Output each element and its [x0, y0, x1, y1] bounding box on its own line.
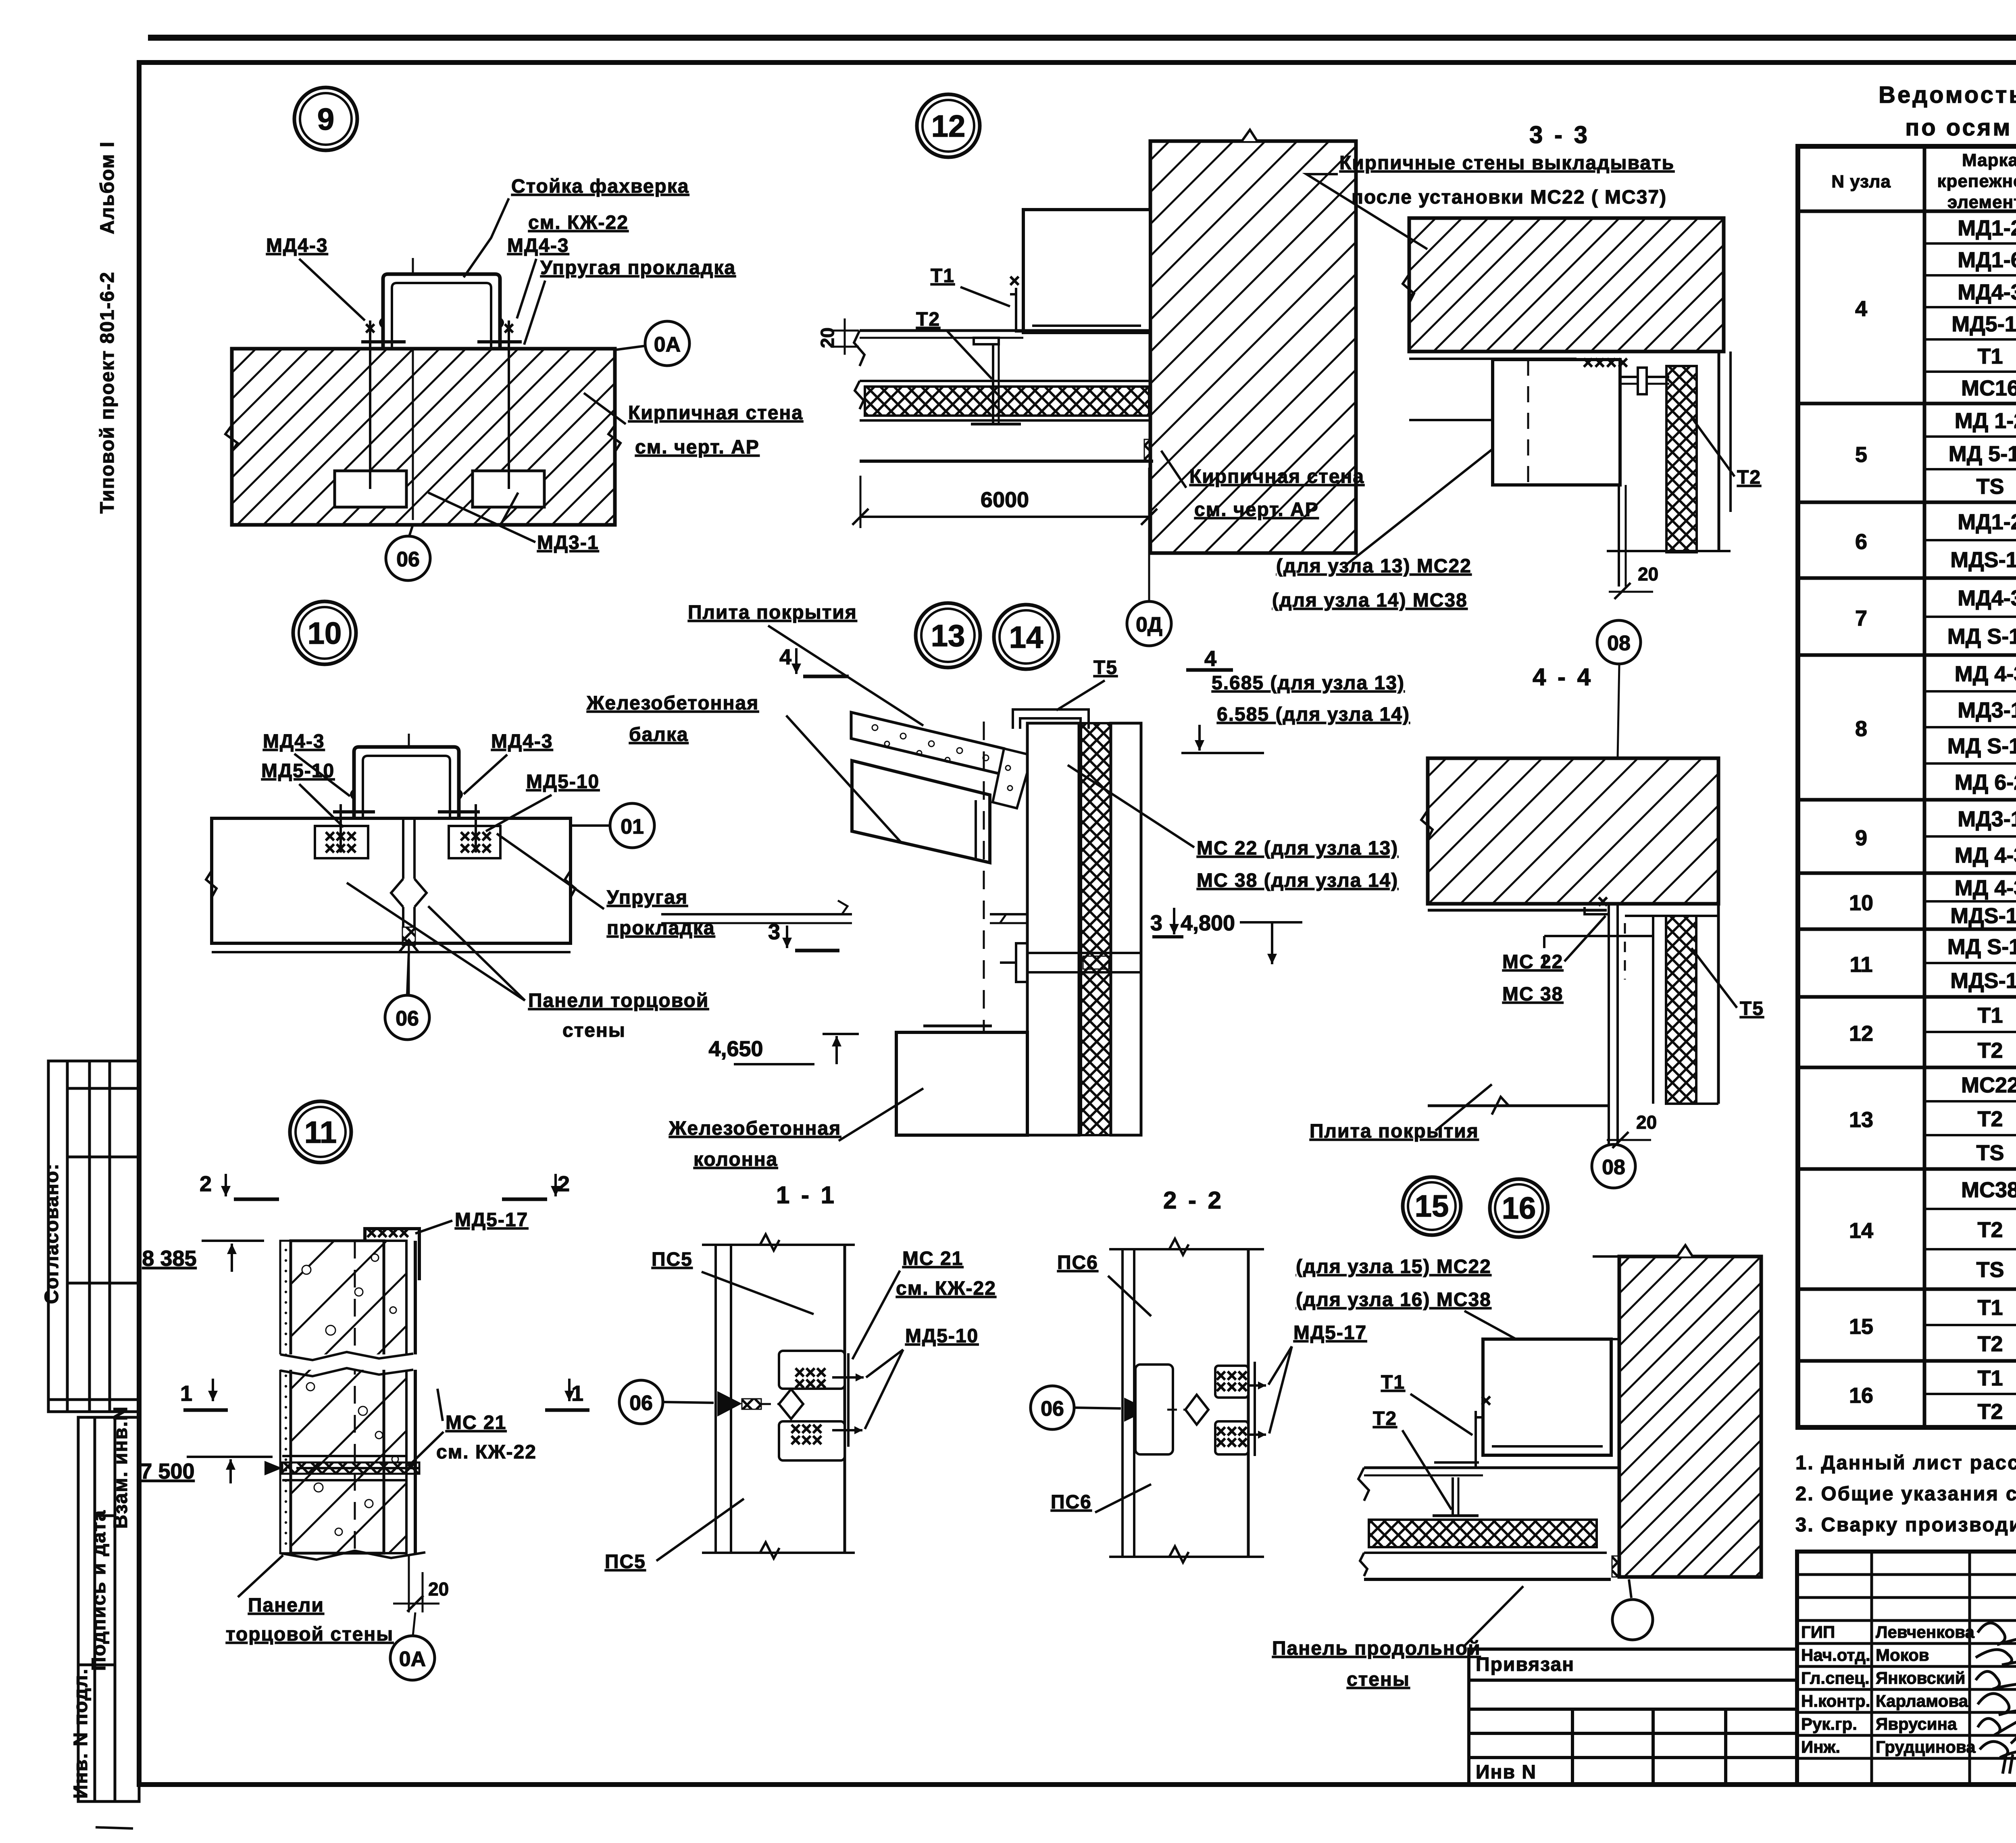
- signatures squiggles: [1976, 1623, 2016, 1774]
- centerline: [412, 258, 414, 520]
- svg-text:ТS: ТS: [1976, 1141, 2004, 1165]
- wall panel on slab: [1023, 210, 1150, 333]
- connector bracket: [1585, 907, 1608, 914]
- svg-text:МС 22: МС 22: [1502, 951, 1563, 973]
- svg-text:0Д: 0Д: [1136, 613, 1162, 637]
- svg-text:9: 9: [317, 102, 334, 137]
- svg-text:06: 06: [396, 548, 420, 571]
- svg-text:×××: ×××: [325, 838, 357, 859]
- sidebar table: Согласовано: [48, 1061, 139, 1412]
- svg-text:16: 16: [1502, 1191, 1536, 1225]
- level lines 4800: [661, 913, 852, 915]
- svg-text:Т1: Т1: [1977, 344, 2003, 368]
- svg-text:4: 4: [1855, 297, 1867, 321]
- svg-text:МД 1-2: МД 1-2: [1955, 409, 2016, 433]
- svg-text:4: 4: [1204, 647, 1216, 671]
- svg-text:стены: стены: [1347, 1669, 1410, 1690]
- svg-text:Янковский: Янковский: [1876, 1668, 1965, 1687]
- svg-text:МДS-17: МДS-17: [1950, 548, 2016, 572]
- svg-text:Железобетонная: Железобетонная: [669, 1118, 841, 1139]
- svg-text:1: 1: [571, 1381, 583, 1406]
- axis 08 bottom: [1592, 1144, 1635, 1188]
- svg-text:06: 06: [396, 1007, 419, 1030]
- svg-text:16: 16: [1849, 1383, 1873, 1408]
- section 4-4: [1310, 664, 1764, 1188]
- svg-text:МД5-10: МД5-10: [261, 760, 335, 782]
- detail 10: [206, 601, 715, 1041]
- top heavy rule: [148, 35, 2016, 41]
- T2 anchor: [992, 341, 994, 425]
- svg-text:14: 14: [1849, 1219, 1873, 1243]
- svg-text:0А: 0А: [654, 333, 681, 356]
- T1 angle: [1435, 1411, 1482, 1468]
- panel verticals: [702, 1244, 855, 1246]
- svg-text:×××: ×××: [794, 1373, 827, 1394]
- svg-text:2: 2: [200, 1172, 212, 1196]
- svg-text:Привязан: Привязан: [1476, 1654, 1574, 1675]
- svg-text:стены: стены: [562, 1020, 626, 1041]
- svg-text:по осям 04 , 08 , 0А: по осям 04 , 08 , 0А: [1905, 114, 2016, 141]
- svg-text:Рук.гр.: Рук.гр.: [1801, 1714, 1857, 1733]
- svg-text:Н.контр.: Н.контр.: [1801, 1691, 1870, 1710]
- T1 angle: [1010, 288, 1056, 331]
- svg-text:20: 20: [1638, 564, 1658, 585]
- centerline: [408, 734, 410, 996]
- svg-text:08: 08: [1607, 632, 1631, 655]
- axis Об: [407, 952, 409, 995]
- slab bottom: [1428, 1105, 1608, 1107]
- svg-text:Панель продольной: Панель продольной: [1272, 1638, 1481, 1659]
- column: [896, 1032, 1027, 1135]
- axis 08 top: [1618, 665, 1619, 758]
- svg-text:см. КЖ-22: см. КЖ-22: [436, 1442, 537, 1463]
- fachwerk post channel: [383, 274, 500, 347]
- svg-text:МД4-3: МД4-3: [491, 731, 553, 752]
- slab: [1364, 1466, 1619, 1469]
- svg-text:1. Данный лист рассматривать с: 1. Данный лист рассматривать совместно с…: [1795, 1452, 2016, 1474]
- title block: [1797, 1552, 2016, 1785]
- section 3-3: [1306, 121, 1761, 664]
- embedded plates МД3-1: [335, 471, 406, 507]
- svg-text:×××: ×××: [460, 838, 492, 859]
- svg-text:МС22: МС22: [1961, 1073, 2016, 1097]
- middle break: [278, 1354, 419, 1370]
- panel strips: [1027, 723, 1079, 1135]
- sidebar table: Взам.инв.N / Подпись и дата / Инв.N подл.: [78, 1417, 139, 1801]
- svg-text:(для узла 16) МС38: (для узла 16) МС38: [1296, 1289, 1491, 1310]
- svg-text:МД4-3: МД4-3: [263, 731, 325, 752]
- svg-text:13: 13: [931, 619, 965, 653]
- svg-text:5: 5: [1855, 443, 1867, 467]
- gasket at wall: [1612, 1556, 1619, 1577]
- svg-text:Т1: Т1: [1977, 1003, 2003, 1028]
- svg-text:МД5-17: МД5-17: [455, 1209, 528, 1231]
- svg-text:Железобетонная: Железобетонная: [586, 693, 759, 714]
- svg-text:МС 38 (для узла 14): МС 38 (для узла 14): [1197, 870, 1398, 891]
- concrete core: [291, 1241, 384, 1553]
- signature grid: [1797, 1552, 2016, 1785]
- dim 20 bottom: [408, 1556, 410, 1612]
- MC21 joint: [282, 1462, 419, 1474]
- svg-text:Т2: Т2: [1977, 1038, 2003, 1063]
- sloped roof slab: [851, 712, 1004, 775]
- slab top edge: [1428, 909, 1607, 912]
- svg-text:Панели торцовой: Панели торцовой: [528, 990, 709, 1011]
- svg-text:ПС6: ПС6: [1057, 1252, 1098, 1273]
- detail 11: [140, 1101, 589, 1680]
- svg-text:×: ×: [1481, 1390, 1491, 1411]
- slab body: [860, 380, 1150, 382]
- svg-text:Панели: Панели: [248, 1595, 324, 1616]
- svg-text:Типовой проект 801-6-2 Ал: Типовой проект 801-6-2 Альбом I: [97, 141, 118, 514]
- svg-text:10: 10: [308, 616, 342, 651]
- detail 15 / 16: [1272, 1177, 1761, 1690]
- svg-text:МД4-3: МД4-3: [266, 235, 328, 256]
- svg-text:Т1: Т1: [1381, 1372, 1405, 1393]
- svg-text:Упругая прокладка: Упругая прокладка: [540, 257, 736, 279]
- section 1-1: [605, 1182, 996, 1573]
- svg-text:12: 12: [931, 109, 966, 144]
- wall panel (channel): [1483, 1339, 1611, 1455]
- svg-text:×: ×: [1597, 891, 1608, 912]
- node circles 13 14: [916, 603, 980, 668]
- panel strips: [1625, 915, 1718, 917]
- svg-text:8 385: 8 385: [142, 1246, 196, 1271]
- detail 9: [225, 87, 803, 580]
- svg-text:Т2: Т2: [1977, 1107, 2003, 1131]
- svg-text:Ведомость монтажных узлов пане: Ведомость монтажных узлов панелей стен: [1879, 82, 2016, 108]
- svg-text:прокладка: прокладка: [607, 917, 715, 939]
- svg-text:МС 21: МС 21: [902, 1248, 963, 1269]
- svg-text:см. черт. АР: см. черт. АР: [635, 437, 760, 458]
- edge breaks: [206, 871, 575, 897]
- svg-text:9: 9: [1855, 826, 1867, 850]
- wall left break: [225, 425, 237, 452]
- svg-text:ПС5: ПС5: [652, 1249, 693, 1270]
- svg-text:13: 13: [1849, 1108, 1873, 1132]
- Т2 tie: [1620, 376, 1669, 378]
- svg-text:МД 4-3: МД 4-3: [1955, 876, 2016, 900]
- svg-text:Грудцинова: Грудцинова: [1876, 1737, 1976, 1756]
- small mark below frame bottom-left: [96, 1827, 133, 1828]
- svg-text:××××: ××××: [366, 1222, 409, 1243]
- svg-text:после установки МС22 ( МС37): после установки МС22 ( МС37): [1352, 187, 1667, 208]
- svg-text:МД1-2: МД1-2: [1958, 510, 2016, 534]
- svg-text:××××: ××××: [1583, 352, 1629, 373]
- svg-text:Согласовано:: Согласовано:: [41, 1163, 62, 1304]
- svg-text:ПС6: ПС6: [1051, 1491, 1092, 1513]
- svg-text:МД1-6: МД1-6: [1958, 248, 2016, 272]
- section 2-2: [1031, 1187, 1607, 1562]
- svg-text:Плита покрытия: Плита покрытия: [1310, 1121, 1479, 1142]
- svg-text:колонна: колонна: [694, 1149, 778, 1170]
- brick wall: [1150, 141, 1356, 553]
- svg-text:×××: ×××: [790, 1429, 823, 1450]
- svg-text:×××: ×××: [1216, 1432, 1248, 1453]
- svg-text:15: 15: [1849, 1315, 1873, 1339]
- notes 1-3 under table: [1795, 1452, 2016, 1536]
- svg-text:Взам. инв.N: Взам. инв.N: [110, 1406, 131, 1529]
- svg-text:1 - 1: 1 - 1: [776, 1182, 837, 1209]
- svg-text:МД4-3: МД4-3: [1958, 586, 2016, 610]
- svg-text:7 500: 7 500: [140, 1459, 194, 1483]
- svg-text:МДS-17: МДS-17: [1950, 969, 2016, 993]
- svg-text:ТS: ТS: [1976, 1258, 2004, 1282]
- roof slab top lines: [860, 329, 1150, 332]
- svg-text:МС 21: МС 21: [446, 1412, 506, 1433]
- svg-text:МД3-1: МД3-1: [537, 532, 599, 553]
- svg-text:Подпись и дата: Подпись и дата: [88, 1510, 110, 1671]
- svg-text:Т1: Т1: [931, 265, 955, 287]
- svg-text:МДS-10: МДS-10: [1950, 904, 2016, 928]
- svg-text:МД5-10: МД5-10: [905, 1325, 979, 1347]
- horizontal joint in panel: [1027, 952, 1141, 954]
- center joint: [402, 818, 404, 879]
- svg-text:МД 4-3: МД 4-3: [1955, 843, 2016, 867]
- svg-text:1: 1: [180, 1381, 192, 1406]
- svg-text:(для узла 14) МС38: (для узла 14) МС38: [1272, 590, 1468, 611]
- svg-text:МД3-1: МД3-1: [1958, 807, 2016, 831]
- svg-text:МД5-17: МД5-17: [1293, 1322, 1367, 1344]
- svg-text:МД S-10: МД S-10: [1947, 935, 2016, 959]
- svg-text:2: 2: [558, 1172, 570, 1196]
- svg-text:3 4,800: 3 4,800: [1150, 911, 1235, 935]
- joint middle: [717, 1391, 742, 1417]
- dim 6000: [860, 476, 862, 528]
- brick wall: [1409, 218, 1724, 352]
- svg-text:4: 4: [779, 645, 791, 669]
- svg-text:Т1: Т1: [1977, 1366, 2003, 1390]
- svg-text:×: ×: [504, 318, 514, 339]
- svg-text:14: 14: [1009, 620, 1043, 655]
- svg-text:МД 6-2: МД 6-2: [1955, 770, 2016, 795]
- detail 12: [817, 94, 1599, 646]
- svg-text:МД1-2: МД1-2: [1958, 216, 2016, 240]
- brick wall: [1619, 1256, 1761, 1577]
- svg-text:×××: ×××: [1216, 1376, 1248, 1397]
- svg-text:(для узла 13) МС22: (для узла 13) МС22: [1276, 555, 1472, 577]
- svg-text:3. Сварку производить электрод: 3. Сварку производить электродами Э42 по…: [1795, 1514, 2016, 1536]
- base plates: [361, 340, 406, 343]
- svg-text:01: 01: [621, 815, 644, 838]
- svg-text:×: ×: [1009, 270, 1020, 291]
- node circle marker below: [1629, 1579, 1631, 1598]
- привязан box: [1469, 1649, 1797, 1784]
- svg-text:20: 20: [1636, 1112, 1657, 1133]
- svg-text:Нач.отд.: Нач.отд.: [1801, 1645, 1870, 1664]
- svg-text:Гл.спец.: Гл.спец.: [1801, 1668, 1870, 1687]
- svg-text:6.585 (для узла 14): 6.585 (для узла 14): [1217, 704, 1410, 725]
- svg-text:7: 7: [1855, 606, 1867, 630]
- svg-text:6: 6: [1855, 530, 1867, 554]
- svg-text:МД S-10: МД S-10: [1947, 734, 2016, 758]
- wall panel vertical strips: [1666, 366, 1697, 552]
- svg-text:Т2: Т2: [1977, 1400, 2003, 1424]
- svg-text:06: 06: [1041, 1397, 1064, 1421]
- svg-text:3: 3: [768, 920, 780, 944]
- svg-text:Т5: Т5: [1740, 998, 1764, 1019]
- beam: [852, 761, 990, 863]
- node circle 11: [290, 1101, 351, 1163]
- svg-text:06: 06: [629, 1392, 653, 1415]
- axis Об: [409, 525, 413, 536]
- svg-text:8: 8: [1855, 717, 1867, 741]
- node circle 10: [293, 601, 356, 664]
- svg-text:Т2: Т2: [1977, 1218, 2003, 1242]
- svg-text:МС38: МС38: [1961, 1178, 2016, 1202]
- svg-text:ГИП: ГИП: [1801, 1623, 1835, 1641]
- svg-text:Т2: Т2: [1977, 1332, 2003, 1356]
- panel stack: cap T5: [1013, 709, 1089, 729]
- svg-text:20: 20: [428, 1579, 449, 1600]
- axis 0А: [413, 1612, 415, 1636]
- svg-text:Т1: Т1: [1977, 1296, 2003, 1320]
- svg-text:Марка: Марка: [1962, 150, 2016, 170]
- panel band: [212, 818, 571, 943]
- notches with bolts: [315, 826, 368, 858]
- bottom break: [280, 1551, 425, 1560]
- svg-text:Плита покрытия: Плита покрытия: [688, 602, 857, 623]
- svg-text:ПС5: ПС5: [605, 1551, 646, 1573]
- svg-text:балка: балка: [629, 724, 689, 745]
- axis 0А: [615, 346, 645, 350]
- svg-text:торцовой стены: торцовой стены: [226, 1624, 394, 1645]
- svg-text:08: 08: [1602, 1156, 1625, 1179]
- brick wall: [1428, 758, 1718, 904]
- svg-text:×: ×: [365, 318, 376, 339]
- svg-text:Кирпичная стена: Кирпичная стена: [1189, 466, 1364, 487]
- node circle 12: [917, 94, 980, 157]
- svg-text:см. черт. АР: см. черт. АР: [1194, 499, 1319, 520]
- svg-text:Стойка фахверка: Стойка фахверка: [511, 176, 689, 197]
- svg-text:Т2: Т2: [916, 309, 940, 330]
- brick wall hatched: [232, 349, 615, 525]
- anchor bolts: [369, 320, 371, 489]
- svg-text:12: 12: [1849, 1021, 1873, 1046]
- svg-text:3 - 3: 3 - 3: [1529, 121, 1590, 148]
- svg-text:Т5: Т5: [1093, 657, 1118, 678]
- connector verticals to 08: [1618, 485, 1620, 587]
- svg-text:11: 11: [304, 1115, 337, 1150]
- joint gasket at wall: [1144, 439, 1152, 461]
- panel verticals: [1109, 1248, 1264, 1250]
- axis 0Д: [1148, 528, 1150, 601]
- svg-text:4 - 4: 4 - 4: [1533, 664, 1593, 691]
- svg-text:4,650: 4,650: [708, 1037, 763, 1061]
- svg-text:Яврусина: Яврусина: [1876, 1714, 1957, 1733]
- detail 13 / 14: [586, 602, 1410, 1170]
- svg-text:2 - 2: 2 - 2: [1163, 1187, 1224, 1214]
- top cap МД5-17: [365, 1229, 419, 1280]
- svg-text:Левченкова: Левченкова: [1876, 1623, 1975, 1641]
- fachwerk channel: [354, 747, 459, 817]
- svg-text:МД 5-10: МД 5-10: [1949, 442, 2016, 466]
- panel: stipple strip: [280, 1241, 291, 1553]
- svg-text:МД4-3: МД4-3: [507, 235, 569, 256]
- corner panel plan: [1409, 358, 1577, 360]
- svg-text:элемента: элемента: [1947, 192, 2016, 212]
- svg-text:МС16: МС16: [1961, 376, 2016, 400]
- svg-text:(для узла 15) МС22: (для узла 15) МС22: [1296, 1256, 1491, 1277]
- svg-text:Кирпичные стены выкладывать: Кирпичные стены выкладывать: [1339, 152, 1674, 174]
- svg-text:ТS: ТS: [1976, 474, 2004, 499]
- svg-text:5.685 (для узла 13): 5.685 (для узла 13): [1212, 672, 1405, 694]
- svg-text:2. Общие указания см. л. 1,2.: 2. Общие указания см. л. 1,2.: [1795, 1483, 2016, 1505]
- svg-text:Упругая: Упругая: [607, 887, 688, 908]
- dashed axis: [983, 722, 985, 1134]
- svg-text:10: 10: [1849, 891, 1873, 915]
- svg-text:Инж.: Инж.: [1801, 1737, 1840, 1756]
- axis 01: [571, 824, 610, 827]
- svg-text:Кирпичная стена: Кирпичная стена: [628, 402, 803, 424]
- svg-text:МД5-10: МД5-10: [1951, 312, 2016, 336]
- svg-text:МС 22 (для узла 13): МС 22 (для узла 13): [1197, 838, 1398, 859]
- axis 08: [1597, 620, 1641, 664]
- svg-text:МД5-10: МД5-10: [526, 771, 600, 793]
- svg-text:Карламова: Карламова: [1876, 1691, 1968, 1710]
- svg-text:Инв N: Инв N: [1476, 1762, 1537, 1783]
- joint: [1124, 1398, 1149, 1422]
- svg-text:Т2: Т2: [1373, 1408, 1397, 1429]
- svg-text:МД S-10: МД S-10: [1947, 624, 2016, 649]
- svg-text:15: 15: [1415, 1189, 1449, 1223]
- Об axis: [619, 1380, 663, 1424]
- svg-text:МС 38: МС 38: [1502, 984, 1563, 1005]
- node circle 9: [294, 87, 357, 150]
- svg-text:Инв. N подл.: Инв. N подл.: [70, 1668, 92, 1799]
- svg-text:6000: 6000: [981, 488, 1029, 512]
- svg-text:крепежного: крепежного: [1937, 171, 2016, 191]
- svg-text:МД4-3: МД4-3: [1958, 280, 2016, 304]
- svg-text:МД3-1: МД3-1: [1958, 698, 2016, 722]
- svg-text:Моков: Моков: [1876, 1645, 1929, 1664]
- node circles 15 16: [1403, 1177, 1461, 1235]
- svg-text:11: 11: [1849, 953, 1872, 977]
- svg-text:0А: 0А: [399, 1647, 426, 1671]
- Об axis: [1031, 1386, 1074, 1429]
- svg-text:см. КЖ-22: см. КЖ-22: [896, 1278, 996, 1299]
- svg-text:N узла: N узла: [1831, 172, 1891, 191]
- svg-text:см. КЖ-22: см. КЖ-22: [528, 212, 629, 233]
- svg-text:Т2: Т2: [1737, 467, 1761, 488]
- svg-text:МД 4-3: МД 4-3: [1955, 662, 2016, 686]
